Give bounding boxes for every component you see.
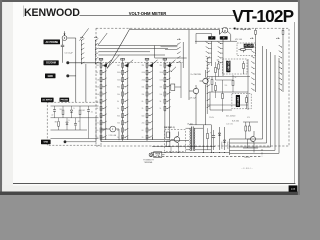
svg-text:30k: 30k — [217, 60, 220, 62]
svg-text:300: 300 — [117, 123, 120, 125]
svg-text:1S 100: 1S 100 — [187, 124, 193, 126]
resistor network R1-R11 RV1 (DC attenuator) — [99, 58, 103, 141]
switch deck S2-c contacts — [219, 42, 222, 45]
wiper arm main diagonal — [107, 28, 130, 68]
probe box inner drop — [95, 118, 97, 139]
resistor R45 — [167, 141, 170, 147]
resistor R48 — [248, 126, 250, 131]
diode D1 1S188FM — [219, 127, 221, 150]
header rule — [80, 14, 237, 16]
probe jack J1 — [62, 36, 67, 41]
capacitor C4 — [75, 118, 77, 124]
wiper arm 3 — [107, 55, 120, 69]
bottom rule — [13, 183, 295, 185]
switch deck contacts for R1-R11 — [102, 63, 107, 137]
transistor Q3 2SB56 oscillator — [174, 137, 180, 143]
probe rectifier enclosure (dashed) — [47, 102, 101, 145]
resistor R49 — [62, 106, 64, 109]
svg-text:60k: 60k — [142, 87, 145, 89]
svg-text:KENWOOD: KENWOOD — [24, 7, 80, 19]
wiper arrow for R34-R40 — [167, 63, 171, 67]
svg-text:5k: 5k — [235, 77, 237, 79]
wire DC adj feed — [210, 109, 232, 111]
svg-text:4k: 4k — [96, 115, 98, 117]
resistor R46 — [207, 133, 209, 138]
rotary switch gang boundary (dashed) — [96, 28, 289, 146]
wire top link — [189, 124, 211, 126]
wire probe bus — [67, 37, 76, 39]
probe box low rail — [51, 129, 88, 131]
resistor R50 — [79, 106, 81, 109]
svg-text:C1 0.1µF: C1 0.1µF — [65, 52, 74, 54]
svg-text:▸S₆: ▸S₆ — [168, 64, 172, 67]
capacitor C1 0.1uF — [62, 40, 64, 45]
svg-text:M: 100µA 2kΩ: M: 100µA 2kΩ — [236, 28, 251, 31]
svg-text:1.2k 3.3k: 1.2k 3.3k — [226, 124, 233, 126]
resistor R42 — [218, 64, 220, 69]
attenuator bottom bus — [101, 139, 170, 141]
svg-text:800k: 800k — [117, 72, 121, 74]
switch deck S2-b contacts — [207, 42, 210, 45]
wire to meter bus — [130, 29, 220, 31]
wire S2 feeds — [196, 33, 212, 35]
svg-text:8.2k 560: 8.2k 560 — [232, 121, 239, 123]
svg-text:SW (B01-1): SW (B01-1) — [164, 127, 175, 129]
page number box — [289, 185, 298, 191]
svg-text:TERMINAL: TERMINAL — [144, 161, 153, 164]
DC/OHM input label — [44, 60, 59, 65]
svg-text:DC ADJ: DC ADJ — [237, 96, 240, 105]
bus junction drops — [229, 139, 231, 155]
svg-text:AC ADJ: AC ADJ — [244, 45, 253, 48]
wiper arm 1 — [80, 28, 89, 40]
svg-text:1.5M: 1.5M — [96, 79, 100, 81]
svg-text:1k: 1k — [160, 108, 162, 110]
probe box bottom rail — [51, 138, 99, 140]
capacitor C3 — [88, 106, 90, 110]
DC/OHM terminal — [66, 61, 69, 64]
svg-text:150k: 150k — [96, 94, 100, 96]
svg-text:135: 135 — [291, 187, 296, 191]
right frame line — [294, 22, 296, 184]
wiper arrow for R12-R22 — [125, 63, 129, 67]
svg-text:3k: 3k — [160, 101, 162, 103]
switch deck S2-a contacts — [176, 43, 179, 46]
wiper arrow for R23-R33 — [149, 63, 153, 67]
diode D2 1S188FM — [224, 127, 226, 150]
S3-a series resistor — [255, 30, 257, 34]
svg-text:OHM ADJ: OHM ADJ — [227, 60, 230, 71]
svg-text:AC INPUT: AC INPUT — [42, 99, 53, 102]
resistor R44 — [167, 132, 170, 138]
junction dots — [164, 152, 165, 153]
svg-text:GND: GND — [48, 75, 54, 78]
resistor network R34-R40 RV4 (output divider) — [163, 58, 167, 113]
RV4 (output divider) value labels — [160, 65, 164, 110]
svg-text:20k: 20k — [142, 94, 145, 96]
svg-text:47k 1µF: 47k 1µF — [190, 98, 197, 100]
oscillator box drops — [170, 146, 172, 153]
svg-text:600k: 600k — [142, 72, 146, 74]
fuse link wire — [162, 154, 165, 156]
title block left rule — [22, 6, 24, 18]
S2-b label — [208, 36, 215, 39]
range switch S1-a contacts — [80, 39, 83, 42]
wire amp to adj network — [207, 76, 250, 78]
electrolytic C5 100uF — [213, 130, 215, 135]
svg-text:DC/OHM: DC/OHM — [46, 62, 56, 65]
white page — [2, 2, 298, 192]
fuse F1 0.5A — [154, 152, 162, 158]
svg-text:600: 600 — [142, 115, 145, 117]
svg-text:10k: 10k — [160, 94, 163, 96]
svg-text:15k: 15k — [96, 108, 99, 110]
RV2 (ohms multiplier) value labels — [117, 65, 121, 139]
S2-c label — [220, 36, 228, 39]
wire secondary 2 — [210, 125, 212, 153]
wire bus link upper — [152, 146, 215, 148]
svg-text:.05: .05 — [78, 121, 80, 123]
OHM ADJ trimmer VR2 (dashed enclosure) — [223, 59, 248, 74]
svg-text:▸S₃: ▸S₃ — [177, 38, 182, 41]
GND input label — [45, 74, 56, 79]
GND terminal — [66, 74, 69, 77]
oscillator transformer T1 — [190, 127, 195, 151]
AC ADJ trimmer VR1 (dashed enclosure) — [237, 43, 256, 56]
resistor R53 — [215, 86, 217, 91]
transistor Q4 — [251, 137, 256, 142]
wire right block rails — [207, 104, 248, 106]
switch deck S3-b contacts — [280, 46, 283, 49]
AC PROBE input label — [44, 40, 61, 45]
svg-text:2× 2SC370: 2× 2SC370 — [191, 73, 202, 76]
wiper arm 2 — [98, 33, 107, 46]
deck collector wire R12-R22 — [127, 62, 129, 140]
resistor R41 — [171, 84, 175, 91]
wire TH drop — [118, 129, 120, 140]
wiper feed wires — [98, 45, 177, 47]
svg-text:8k: 8k — [117, 101, 119, 103]
probe box top rail — [51, 105, 99, 107]
GND2 terminal — [64, 140, 67, 143]
resistor R51 — [58, 118, 60, 121]
svg-text:▸S₅: ▸S₅ — [276, 37, 281, 40]
resistor R52 — [215, 68, 217, 73]
svg-text:80k: 80k — [117, 87, 120, 89]
battery dashed return — [150, 155, 262, 157]
meter M1 100uA — [222, 27, 228, 33]
svg-text:.02: .02 — [51, 115, 53, 117]
S3-b series resistor — [282, 30, 284, 34]
resistor R43 — [211, 80, 213, 85]
meter spec note — [234, 28, 236, 30]
wiper arrow for R1-R11 — [103, 63, 107, 67]
wire q4 links — [243, 121, 258, 123]
diode D4 1S188FM — [66, 118, 68, 122]
DC ADJ trimmer VR3 (dashed enclosure) — [232, 94, 251, 109]
svg-text:3k: 3k — [117, 108, 119, 110]
svg-text:1S188FM: 1S188FM — [228, 141, 230, 149]
svg-text:VOLT-OHM METER: VOLT-OHM METER — [129, 11, 167, 16]
svg-text:20: 20 — [142, 137, 144, 139]
transistor Q1 2SC370 — [203, 78, 208, 83]
svg-text:12k: 12k — [225, 85, 228, 87]
switch deck contacts for R12-R22 — [124, 63, 129, 137]
svg-text:2k: 2k — [142, 108, 144, 110]
battery bus wire — [151, 152, 230, 154]
svg-text:400k: 400k — [96, 87, 100, 89]
svg-text:▸S₄: ▸S₄ — [250, 37, 255, 40]
svg-text:2SB186: 2SB186 — [244, 157, 250, 159]
svg-text:AC PROBE: AC PROBE — [45, 41, 58, 44]
resistor R55 — [232, 81, 234, 86]
svg-text:470: 470 — [247, 117, 250, 119]
capacitor C2 — [54, 106, 56, 110]
RV1 (DC attenuator) value labels — [96, 65, 100, 139]
resistor network R23-R33 RV3 (AC attenuator) — [145, 58, 149, 141]
svg-text:200k: 200k — [142, 79, 146, 81]
switch deck contacts for R23-R33 — [148, 63, 153, 137]
switch deck S4 contacts — [206, 57, 209, 60]
resistor R54 — [222, 94, 224, 99]
svg-text:300k: 300k — [160, 72, 164, 74]
AC INPUT label — [41, 98, 54, 103]
svg-text:6k: 6k — [142, 101, 144, 103]
deck collector wire R1-R11 — [105, 62, 107, 140]
svg-text:25k 9k: 25k 9k — [209, 117, 214, 119]
transistor Q2 2SC370 — [193, 88, 198, 93]
svg-text:VR₁ 500: VR₁ 500 — [235, 39, 242, 41]
deck collector wire R23-R33 — [151, 62, 153, 140]
thermistor TH1 — [110, 126, 116, 132]
wire gnd drop — [85, 64, 87, 102]
svg-text:60: 60 — [142, 130, 144, 132]
svg-text:VT-102P: VT-102P — [232, 6, 293, 26]
right-side bus wires — [230, 46, 280, 153]
PROBE label — [60, 98, 70, 102]
svg-text:PROBE: PROBE — [61, 99, 69, 101]
svg-text:3k 1.5k 820: 3k 1.5k 820 — [226, 116, 235, 118]
wire emitter rail — [180, 62, 182, 98]
svg-text:1S188FM: 1S188FM — [221, 141, 223, 149]
svg-text:.01: .01 — [91, 112, 93, 114]
svg-text:30k: 30k — [117, 94, 120, 96]
svg-text:800: 800 — [117, 115, 120, 117]
T1 leads — [186, 127, 191, 129]
switch contact S2-b — [171, 71, 172, 72]
svg-text:— B : B01‑1 —: — B : B01‑1 — — [241, 168, 253, 170]
GND2 label — [41, 140, 51, 145]
svg-text:30k: 30k — [160, 87, 163, 89]
terminal E1 — [149, 153, 152, 156]
switch deck contacts for R34-R40 — [166, 63, 171, 108]
svg-text:GND: GND — [43, 142, 48, 144]
wire meter left lead drop — [219, 30, 221, 35]
range switch S1-b contacts — [94, 39, 97, 42]
wire meter to AC ADJ — [195, 40, 237, 42]
svg-text:300k: 300k — [117, 79, 121, 81]
probe box mid rail — [51, 117, 99, 119]
svg-text:100k: 100k — [160, 79, 164, 81]
deck collector wire R34-R40 — [168, 62, 170, 126]
resistor network R12-R22 RV2 (ohms multiplier) — [121, 58, 125, 141]
diode D3 1S188FM — [71, 106, 73, 110]
scan background (grey surround) — [0, 0, 300, 195]
svg-text:10k: 10k — [206, 68, 209, 70]
wire secondary 1 — [202, 125, 204, 153]
wire main vertical feed — [188, 30, 190, 100]
svg-text:200: 200 — [142, 123, 145, 125]
gang dashed link — [96, 62, 183, 64]
resistor R47 — [245, 126, 247, 131]
svg-text:2.5V 0.3A: 2.5V 0.3A — [109, 134, 117, 137]
switch deck S3-a contacts — [253, 46, 256, 49]
oscillator enclosure (dashed) — [165, 130, 186, 152]
RV3 (AC attenuator) value labels — [142, 65, 146, 139]
S2-a feed steps — [154, 46, 156, 59]
